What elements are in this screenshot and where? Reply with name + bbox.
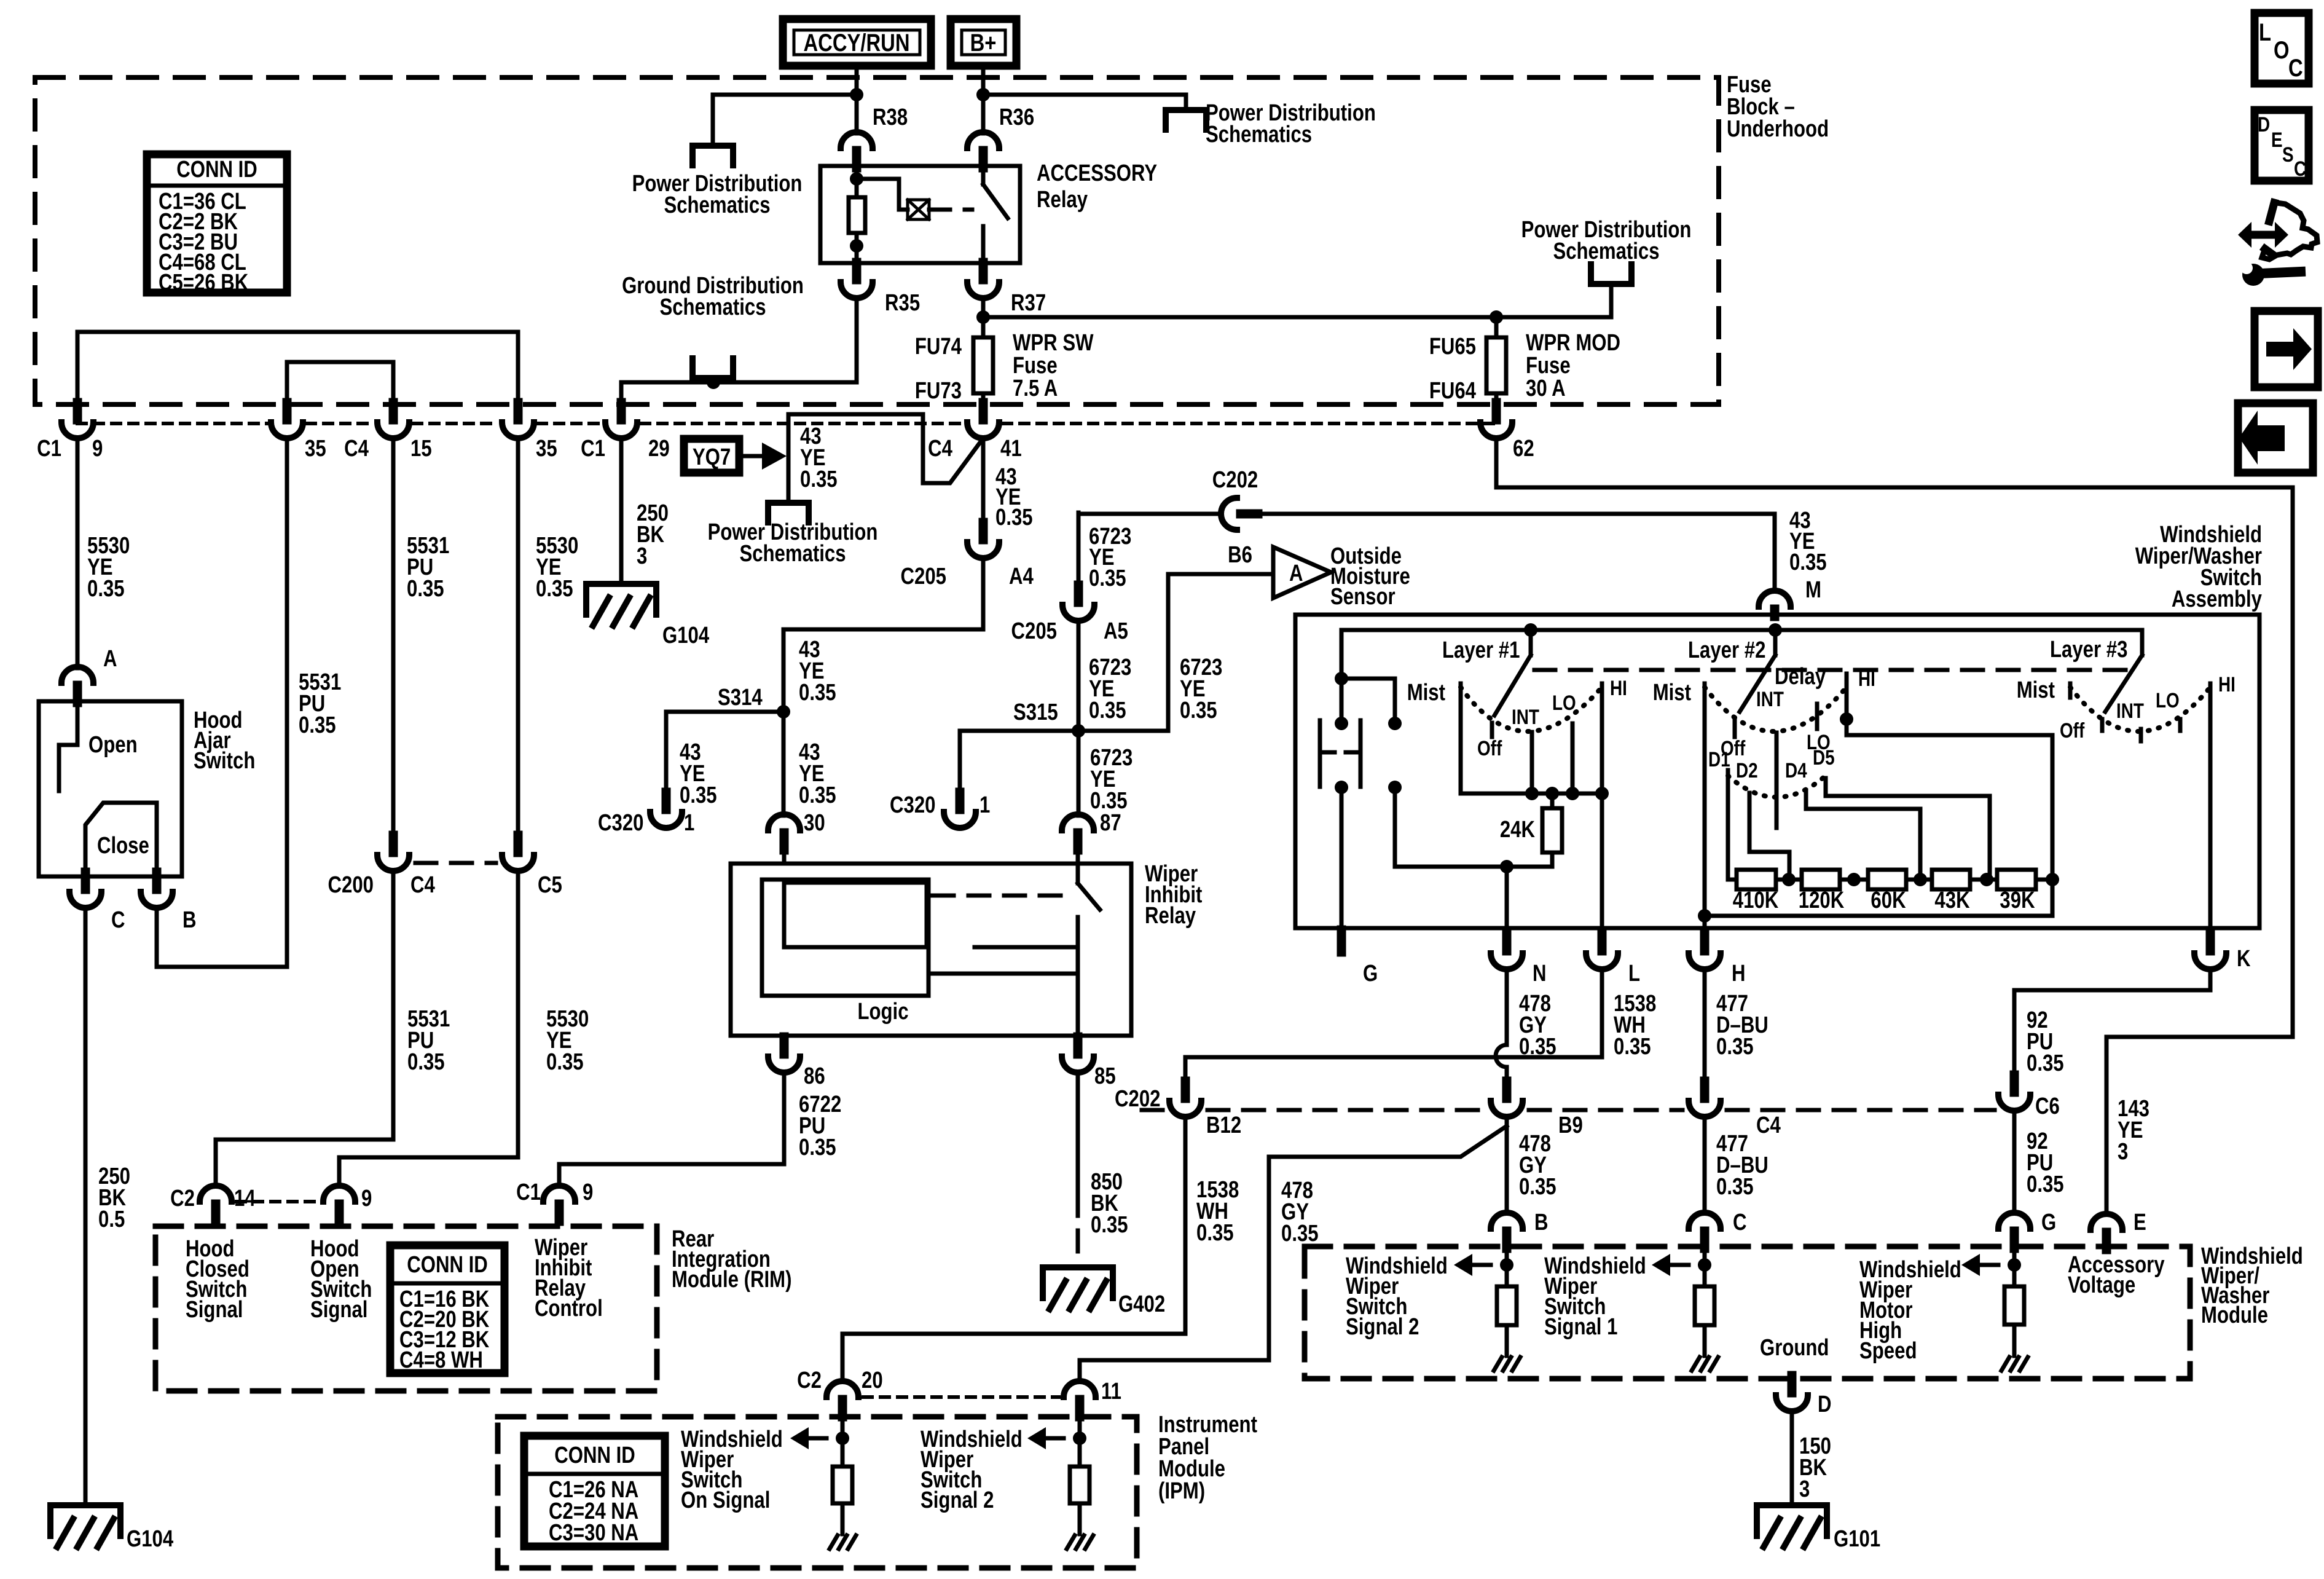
- svg-text:L: L: [1628, 961, 1640, 986]
- layer3 Off contact: [2100, 719, 2105, 731]
- relay winding symbol: [857, 179, 908, 210]
- resistor ladder 410K 120K 60K 43K 39K: [1728, 878, 1737, 882]
- svg-text:G: G: [1363, 961, 1378, 986]
- wire K to C6: [2014, 969, 2210, 1075]
- svg-text:0.35: 0.35: [299, 712, 336, 738]
- svg-text:11: 11: [1101, 1379, 1121, 1404]
- svg-text:0.5: 0.5: [98, 1207, 125, 1232]
- svg-text:Close: Close: [97, 833, 149, 859]
- svg-text:3: 3: [2118, 1139, 2128, 1165]
- icon arrow right box: [2255, 311, 2318, 387]
- wire ACCY/RUN feed: [855, 66, 859, 95]
- svg-text:R37: R37: [1011, 290, 1046, 316]
- connector face dotted RIM: [237, 1200, 318, 1203]
- power feed box B+: [951, 19, 1016, 66]
- svg-text:S315: S315: [1013, 699, 1058, 725]
- connector C202 pin B12: [1181, 1081, 1190, 1098]
- WWM signal1 resistor: [1703, 1248, 1707, 1286]
- wire C4 to WWM C: [1703, 1117, 1707, 1213]
- layer1 rotary arc: [1461, 687, 1602, 731]
- svg-text:D4: D4: [1785, 758, 1807, 782]
- connector C1 pin 35 second: [514, 403, 523, 420]
- wire to power distribution left: [713, 95, 857, 146]
- svg-text:86: 86: [804, 1063, 825, 1089]
- fuse block underhood dashed box: [35, 77, 1719, 404]
- svg-text:0.35: 0.35: [1789, 549, 1827, 575]
- svg-text:Signal 2: Signal 2: [921, 1487, 994, 1513]
- svg-text:Fuse: Fuse: [1013, 353, 1058, 379]
- connector H: [1700, 934, 1710, 951]
- svg-text:14: 14: [234, 1186, 256, 1211]
- svg-text:39K: 39K: [2000, 888, 2035, 913]
- svg-text:410K: 410K: [1733, 888, 1778, 913]
- table CONN ID RIM: [390, 1245, 504, 1373]
- connector C1 pin 29: [617, 403, 626, 420]
- wire S315 left to C320: [960, 731, 1078, 793]
- svg-text:C1: C1: [516, 1179, 541, 1205]
- svg-text:CONN ID: CONN ID: [176, 157, 257, 183]
- svg-text:C2: C2: [170, 1186, 195, 1211]
- wire S314 to relay pin 30: [782, 712, 786, 816]
- svg-text:A: A: [1289, 561, 1303, 586]
- svg-text:0.35: 0.35: [799, 1135, 836, 1160]
- svg-text:B12: B12: [1206, 1112, 1241, 1138]
- svg-text:1: 1: [979, 792, 990, 818]
- svg-text:Switch: Switch: [194, 748, 255, 774]
- relay actuation dashed link: [929, 208, 972, 212]
- WWM motor high resistor: [2012, 1248, 2017, 1286]
- svg-text:Layer #3: Layer #3: [2050, 637, 2127, 663]
- wire 250 BK 3 to ground: [619, 438, 624, 580]
- wire bracket feed WPR MOD: [1609, 284, 1614, 317]
- svg-text:0.35: 0.35: [536, 576, 573, 602]
- svg-text:C205: C205: [1011, 618, 1057, 644]
- relay internal wires: [975, 945, 1078, 950]
- svg-text:FU64: FU64: [1429, 378, 1477, 404]
- svg-text:WPR MOD: WPR MOD: [1526, 330, 1620, 356]
- svg-text:0.35: 0.35: [1281, 1221, 1319, 1246]
- icon arrow left box: [2238, 403, 2313, 473]
- connector face dotted line C1/C4: [77, 422, 267, 425]
- connector C200 dashed face: [415, 861, 496, 865]
- switch common bus: [1341, 628, 2142, 632]
- svg-text:0.35: 0.35: [800, 467, 838, 492]
- wire 5530 YE pin9 to hood switch: [76, 438, 80, 668]
- wire N to B9: [1505, 969, 1509, 1045]
- connector relay pin 85: [1074, 1037, 1083, 1054]
- svg-text:LO: LO: [1552, 691, 1576, 714]
- wire S315 down to relay 87: [1077, 731, 1081, 816]
- connector K: [2206, 934, 2215, 951]
- svg-text:Schematics: Schematics: [664, 192, 770, 218]
- svg-text:On Signal: On Signal: [681, 1487, 770, 1513]
- svg-text:0.35: 0.35: [799, 680, 836, 706]
- svg-text:A4: A4: [1009, 564, 1034, 589]
- svg-text:C4: C4: [928, 436, 952, 462]
- svg-text:INT: INT: [1756, 687, 1784, 711]
- wire delay ladder bus to H: [1698, 909, 1711, 923]
- svg-text:D: D: [1818, 1392, 1832, 1417]
- svg-text:Sensor: Sensor: [1330, 584, 1396, 610]
- fuse FU65/FU64 WPR MOD: [1494, 317, 1499, 337]
- svg-text:0.35: 0.35: [1091, 1212, 1128, 1238]
- off-page bracket power distribution YQ7 branch: [768, 503, 809, 522]
- connector C320 pin 1 left: [662, 792, 671, 809]
- svg-text:20: 20: [862, 1368, 883, 1393]
- svg-text:WPR SW: WPR SW: [1013, 330, 1094, 356]
- svg-text:1: 1: [684, 810, 694, 836]
- svg-text:Schematics: Schematics: [1553, 238, 1659, 264]
- wire B+ feed: [981, 66, 986, 95]
- component YQ7 option box: [684, 439, 739, 473]
- svg-text:C3=30 NA: C3=30 NA: [549, 1520, 638, 1546]
- svg-text:Relay: Relay: [1145, 903, 1196, 929]
- svg-text:0.35: 0.35: [1196, 1220, 1234, 1246]
- svg-text:0.35: 0.35: [87, 576, 125, 602]
- svg-text:0.35: 0.35: [546, 1049, 584, 1075]
- svg-text:0.35: 0.35: [1614, 1034, 1651, 1060]
- svg-text:G104: G104: [127, 1526, 174, 1552]
- svg-text:Layer #2: Layer #2: [1688, 637, 1765, 663]
- svg-text:B6: B6: [1228, 542, 1252, 568]
- connector C200 pin C5: [514, 835, 523, 853]
- hood ajar switch box: [39, 701, 182, 876]
- relay ACCESSORY box: [820, 166, 1020, 263]
- module Instrument Panel Module box: [498, 1417, 1137, 1568]
- svg-text:0.35: 0.35: [1716, 1174, 1754, 1200]
- svg-text:(IPM): (IPM): [1158, 1478, 1205, 1504]
- relay coil box: [784, 883, 927, 947]
- svg-text:HI: HI: [1610, 676, 1627, 699]
- svg-text:Module (RIM): Module (RIM): [672, 1267, 791, 1293]
- svg-text:Control: Control: [535, 1296, 603, 1321]
- jumper wire pin9 to pin35: [77, 332, 518, 411]
- wire layer3 HI to K: [2208, 683, 2213, 934]
- connector WWM pin E: [2090, 1214, 2122, 1230]
- svg-text:C200: C200: [328, 872, 374, 898]
- svg-text:60K: 60K: [1871, 888, 1906, 913]
- svg-text:29: 29: [648, 436, 670, 462]
- svg-text:Underhood: Underhood: [1727, 116, 1829, 142]
- wire C202 B6 left segment: [1078, 512, 1220, 516]
- svg-text:FU73: FU73: [915, 378, 962, 404]
- connector L: [1598, 934, 1607, 951]
- svg-text:D2: D2: [1736, 758, 1758, 782]
- svg-text:B: B: [1534, 1210, 1549, 1235]
- pin G stub: [1337, 930, 1346, 952]
- relay Wiper Inhibit box: [731, 864, 1131, 1036]
- connector face dotted IPM: [863, 1395, 1059, 1399]
- wire fuse bus: [983, 315, 1611, 320]
- svg-text:Schematics: Schematics: [1206, 122, 1312, 148]
- connector RIM pin 9: [323, 1186, 355, 1202]
- connector C205 pin A4: [979, 522, 988, 540]
- wire L to B12: [1185, 969, 1602, 1081]
- svg-text:87: 87: [1100, 810, 1121, 836]
- wire R37 to fuses bus: [981, 298, 986, 317]
- svg-text:0.35: 0.35: [1089, 565, 1126, 591]
- connector N: [1502, 934, 1512, 951]
- wire 62 to accessory voltage E: [1496, 438, 2293, 1213]
- wire layer1 to L: [1600, 793, 1604, 934]
- svg-text:G: G: [2041, 1210, 2056, 1235]
- svg-text:HI: HI: [2218, 672, 2236, 696]
- svg-text:O: O: [2274, 36, 2290, 64]
- layer2 switch blade: [1769, 623, 1782, 637]
- layer1 Off contact: [1490, 723, 1494, 737]
- svg-text:YQ7: YQ7: [693, 444, 731, 470]
- svg-text:A: A: [103, 646, 117, 672]
- svg-text:Signal: Signal: [186, 1297, 243, 1323]
- fuse FU74/FU73 WPR SW: [981, 317, 986, 337]
- svg-text:0.35: 0.35: [2027, 1171, 2064, 1197]
- svg-text:0.35: 0.35: [1090, 788, 1128, 814]
- svg-text:Schematics: Schematics: [659, 294, 766, 320]
- wire 5531 PU pin15 down: [391, 438, 396, 835]
- svg-text:C5=26 BK: C5=26 BK: [159, 270, 248, 296]
- wire hood B loop: [157, 438, 287, 967]
- svg-text:Signal 1: Signal 1: [1544, 1314, 1617, 1340]
- layer separator dashed: [1534, 668, 2129, 672]
- WWM signal2 resistor: [1505, 1248, 1509, 1286]
- connector IPM C2 pin 20: [826, 1381, 858, 1397]
- connector C202 pin B9: [1502, 1081, 1512, 1098]
- svg-text:G104: G104: [662, 623, 710, 648]
- svg-text:Layer #1: Layer #1: [1442, 637, 1520, 663]
- svg-text:C320: C320: [890, 792, 935, 818]
- svg-text:A5: A5: [1104, 618, 1128, 644]
- svg-text:0.35: 0.35: [799, 782, 836, 808]
- svg-text:R35: R35: [885, 290, 920, 316]
- ground G101: [1757, 1505, 1827, 1536]
- svg-text:H: H: [1732, 961, 1746, 986]
- svg-text:G402: G402: [1118, 1291, 1165, 1317]
- wire 43 YE to S314: [783, 558, 983, 712]
- node ACCY/RUN junction: [850, 88, 863, 101]
- svg-text:B9: B9: [1558, 1112, 1583, 1138]
- svg-text:C1: C1: [37, 436, 61, 462]
- svg-text:Signal 2: Signal 2: [1346, 1314, 1419, 1340]
- wire sensor feed from S315: [1078, 574, 1271, 731]
- svg-text:G101: G101: [1834, 1526, 1880, 1552]
- connector C4 pin 35 first: [283, 403, 292, 420]
- svg-text:C2: C2: [797, 1368, 822, 1393]
- svg-text:R38: R38: [873, 104, 908, 130]
- connector R37: [979, 262, 988, 280]
- connector hood ajar pin B: [152, 872, 162, 889]
- svg-text:Off: Off: [2060, 719, 2085, 742]
- svg-text:Fuse: Fuse: [1526, 353, 1571, 379]
- layer1 collector: [1461, 792, 1602, 796]
- svg-text:C4: C4: [344, 436, 369, 462]
- connector C4 pin 15: [389, 403, 398, 420]
- svg-text:C320: C320: [598, 810, 643, 836]
- node ground junction: [707, 376, 720, 389]
- wire 5530 YE to RIM 9: [339, 871, 518, 1186]
- svg-text:C: C: [1733, 1210, 1747, 1235]
- wire H to C4: [1703, 969, 1707, 1081]
- node fuse bus at WPR MOD: [1490, 310, 1503, 324]
- connector WWM pin D: [1788, 1376, 1797, 1393]
- svg-text:LO: LO: [2156, 688, 2180, 712]
- table CONN ID fuse block: [147, 154, 287, 293]
- wire 850 BK 0.35 to G402: [1076, 1073, 1080, 1195]
- wire B9 branch to IPM 11: [1080, 1126, 1507, 1381]
- svg-text:Signal: Signal: [310, 1297, 367, 1323]
- svg-text:K: K: [2237, 946, 2251, 972]
- wire B12 to IPM C2-20: [842, 1117, 1185, 1381]
- svg-text:C5: C5: [538, 872, 562, 898]
- svg-text:Relay: Relay: [1037, 187, 1088, 213]
- relay coil resistor: [849, 197, 865, 233]
- svg-text:0.35: 0.35: [1519, 1174, 1557, 1200]
- svg-text:C: C: [2288, 54, 2303, 82]
- layer3 switch blade: [2140, 630, 2145, 655]
- svg-text:41: 41: [1000, 436, 1022, 462]
- off-page bracket power distribution left: [693, 146, 733, 165]
- svg-text:9: 9: [92, 436, 103, 462]
- table CONN ID IPM: [524, 1436, 665, 1546]
- svg-text:9: 9: [361, 1186, 372, 1211]
- connector C202 pin C6: [2010, 1075, 2019, 1092]
- arrow YQ7: [739, 454, 767, 459]
- connector IPM pin 11: [1064, 1381, 1096, 1397]
- layer2 Off contact: [1733, 720, 1737, 737]
- relay logic box: [762, 880, 928, 996]
- wire S314 to C320: [666, 712, 783, 793]
- svg-text:0.35: 0.35: [680, 782, 717, 808]
- connector R35: [852, 262, 862, 280]
- wire 43 YE branch to power distribution: [788, 414, 983, 503]
- switch assembly box: [1295, 615, 2259, 928]
- svg-text:0.35: 0.35: [407, 1049, 445, 1075]
- svg-text:B: B: [183, 907, 197, 933]
- svg-text:0.35: 0.35: [407, 576, 444, 602]
- svg-text:Mist: Mist: [2017, 677, 2055, 703]
- wire B9 to WWM B: [1505, 1117, 1509, 1213]
- connector RIM C2 pin 14: [200, 1186, 232, 1202]
- svg-text:62: 62: [1513, 436, 1534, 462]
- svg-text:C4=8 WH: C4=8 WH: [399, 1347, 483, 1373]
- module Rear Integration Module box: [155, 1226, 657, 1391]
- svg-text:7.5 A: 7.5 A: [1013, 376, 1058, 401]
- svg-text:Speed: Speed: [1859, 1338, 1917, 1364]
- svg-text:D1: D1: [1708, 747, 1730, 771]
- connector C4 pin 41: [979, 403, 988, 420]
- svg-text:CONN ID: CONN ID: [554, 1443, 635, 1468]
- connector relay pin 30: [768, 814, 800, 830]
- svg-text:Logic: Logic: [857, 999, 908, 1025]
- svg-text:0.35: 0.35: [1089, 698, 1126, 723]
- wire 5531 PU to RIM C2-14: [216, 871, 393, 1186]
- svg-text:D5: D5: [1813, 746, 1835, 769]
- svg-text:30 A: 30 A: [1526, 376, 1566, 401]
- svg-text:C4: C4: [410, 872, 435, 898]
- layer3 rotary arc: [2070, 687, 2210, 731]
- svg-text:E: E: [2271, 128, 2283, 151]
- washer switch contacts: [1318, 720, 1322, 787]
- ground G402: [1043, 1267, 1113, 1298]
- svg-text:D: D: [2258, 112, 2270, 136]
- connector switch pin M: [1759, 591, 1791, 607]
- svg-text:FU65: FU65: [1429, 334, 1476, 360]
- icon LOC box: [2255, 13, 2309, 84]
- svg-text:0.35: 0.35: [995, 505, 1033, 530]
- svg-text:INT: INT: [2116, 699, 2144, 722]
- connector relay pin 86: [780, 1037, 789, 1054]
- off-page bracket ground distribution: [693, 358, 733, 378]
- svg-text:B+: B+: [970, 29, 997, 57]
- svg-text:Delay: Delay: [1775, 664, 1826, 690]
- layer2 D arc dotted: [1728, 776, 1826, 797]
- wire A5 to S315: [1077, 621, 1081, 731]
- ground G104 lower: [50, 1505, 120, 1536]
- svg-text:Open: Open: [88, 732, 138, 758]
- ground G104 upper: [586, 584, 656, 615]
- connector WWM pin G: [1998, 1213, 2030, 1229]
- wire 43 YE pin41 down: [981, 438, 986, 523]
- wire C6 to G: [2012, 1111, 2017, 1213]
- svg-text:Mist: Mist: [1407, 680, 1446, 706]
- svg-text:Off: Off: [1477, 736, 1502, 760]
- module Windshield Wiper/Washer Module box: [1305, 1246, 2190, 1379]
- node fuse bus at WPR SW: [976, 310, 990, 324]
- svg-text:N: N: [1533, 961, 1547, 986]
- connector relay pin 87: [1062, 814, 1094, 830]
- svg-text:E: E: [2134, 1210, 2146, 1235]
- svg-text:Assembly: Assembly: [2172, 586, 2263, 612]
- svg-text:3: 3: [1799, 1476, 1810, 1502]
- resistor 24K: [1550, 793, 1555, 808]
- svg-text:Module: Module: [2201, 1302, 2268, 1328]
- svg-text:CONN ID: CONN ID: [407, 1252, 488, 1278]
- wire B+ to power distribution: [983, 95, 1186, 110]
- washer switch output to G: [1340, 787, 1344, 928]
- connector hood ajar pin A: [61, 667, 93, 683]
- svg-text:C6: C6: [2035, 1093, 2060, 1119]
- svg-text:43K: 43K: [1934, 888, 1969, 913]
- wire 6722 PU to RIM C1-9: [559, 1073, 784, 1186]
- off-page bracket power distribution right: [1166, 110, 1206, 130]
- wire 5530 YE pin35 down: [516, 438, 520, 835]
- svg-text:0.35: 0.35: [1716, 1034, 1754, 1060]
- svg-text:Mist: Mist: [1653, 680, 1692, 706]
- svg-text:30: 30: [804, 810, 825, 836]
- connector C200 pin C4: [389, 835, 398, 853]
- washer switch feed: [1340, 630, 1344, 679]
- svg-text:S314: S314: [718, 685, 763, 711]
- connector WWM pin B: [1491, 1213, 1523, 1229]
- svg-text:INT: INT: [1512, 705, 1539, 728]
- off-page bracket power distribution mid: [1591, 264, 1631, 284]
- svg-text:Schematics: Schematics: [739, 541, 846, 567]
- svg-text:HI: HI: [1858, 667, 1875, 690]
- svg-text:C4: C4: [1756, 1112, 1781, 1138]
- power feed box ACCY/RUN: [783, 19, 931, 66]
- connector RIM C1 pin 9: [543, 1186, 575, 1202]
- relay inhibit switch blade: [1076, 864, 1080, 883]
- svg-text:Ground: Ground: [1760, 1335, 1829, 1361]
- wire 150 BK 3 to G101: [1790, 1411, 1794, 1502]
- svg-text:35: 35: [536, 436, 557, 462]
- hood switch open contact: [59, 701, 77, 791]
- svg-text:M: M: [1805, 577, 1821, 603]
- layer1 switch blade: [1524, 623, 1537, 637]
- svg-text:9: 9: [583, 1179, 593, 1205]
- connector face dashed C202: [1142, 1108, 1163, 1112]
- wash output line to N: [1395, 865, 1552, 869]
- IPM switch-on signal sense resistor: [841, 1414, 845, 1467]
